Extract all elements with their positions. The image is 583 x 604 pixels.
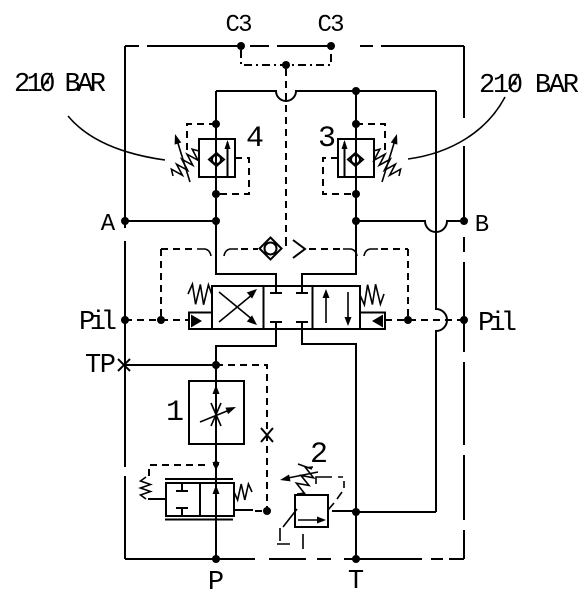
svg-text:2: 2	[310, 438, 328, 472]
node A boundary	[121, 217, 129, 225]
wire right inner vertical	[436, 91, 447, 512]
relief valve 4	[199, 91, 235, 221]
valve 2 adjust arrow	[280, 472, 318, 481]
pilot box right of directional valve	[360, 313, 385, 330]
compensator left pilot stub	[148, 498, 166, 500]
relief valve 3	[338, 91, 374, 221]
directional valve crossed arrows left cell	[219, 289, 257, 325]
wire center pilot dashed vertical	[285, 69, 287, 243]
label 210 BAR right	[479, 71, 579, 101]
outer boundary right edge	[463, 46, 465, 559]
svg-text:210 BAR: 210 BAR	[479, 71, 579, 101]
svg-text:C3: C3	[226, 12, 253, 39]
svg-text:A: A	[101, 211, 116, 238]
wire A to valve top	[216, 221, 276, 286]
svg-text:Pil: Pil	[478, 309, 517, 339]
pressure compensator body	[165, 479, 234, 520]
node TP junction	[212, 361, 220, 369]
wire B to valve top	[302, 221, 356, 286]
pilot dashed loop left vertical	[160, 249, 162, 320]
node Pil right boundary	[460, 316, 468, 324]
wire T junction to right vertical	[356, 511, 436, 513]
spring left of directional valve	[188, 284, 212, 305]
flow arrow into compensator	[213, 462, 220, 471]
Pil wire left	[125, 319, 189, 321]
svg-text:C3: C3	[318, 12, 345, 39]
plugged connection X	[261, 428, 273, 442]
outer boundary top edge	[125, 45, 464, 47]
directional valve parallel arrows right cell	[323, 289, 352, 326]
node C3 left	[237, 42, 245, 50]
node C3 center junction	[282, 61, 290, 69]
pilot box left of directional valve	[189, 313, 212, 330]
node valve2 inlet	[263, 507, 271, 515]
check valve in pilot line	[260, 238, 306, 260]
node A inner	[212, 217, 220, 225]
spring right of directional valve	[360, 284, 384, 305]
leader curve left	[68, 116, 165, 160]
node Pil left boundary	[121, 316, 129, 324]
compensator right spring	[234, 484, 252, 500]
valve 2 remote pilot dashes	[316, 477, 344, 510]
pilot dashes of relief valve 4	[187, 124, 249, 194]
node T port	[352, 555, 360, 563]
spring of relief valve 4	[171, 149, 199, 176]
wire valve bottom-left to P column	[216, 329, 276, 381]
svg-text:Pil: Pil	[79, 308, 117, 338]
throttle valve 1 box	[189, 381, 244, 444]
adjust arrow of relief valve 3	[382, 134, 397, 182]
svg-text:T: T	[348, 567, 364, 597]
spring of relief valve 3	[373, 149, 401, 176]
wire valve bottom-right to T column	[302, 329, 356, 559]
node header valve3 junction	[352, 87, 360, 95]
port A wire	[125, 220, 216, 222]
node T upper junction	[352, 508, 360, 516]
directional valve center cell blocked ports	[270, 286, 308, 329]
wire C3 dash-dot link	[241, 50, 331, 65]
throttle adjustable symbol	[200, 403, 236, 426]
pilot dashes of relief valve 3	[323, 124, 385, 194]
wire throttle to compensator	[215, 444, 217, 559]
label 210 BAR left	[14, 70, 106, 100]
node B inner	[352, 217, 360, 225]
pressure valve 2 body	[283, 495, 328, 527]
leader curve right	[408, 97, 505, 159]
svg-text:4: 4	[246, 122, 264, 156]
svg-text:TP: TP	[85, 351, 116, 381]
TP wire	[125, 364, 216, 366]
wire relief header	[216, 91, 436, 101]
Pil wire right	[385, 319, 464, 321]
node Pil right junction	[404, 316, 412, 324]
compensator pilot dashed	[149, 465, 210, 476]
adjust arrow of relief valve 4	[175, 134, 190, 182]
valve 2 drain dashes	[277, 528, 303, 549]
svg-text:3: 3	[318, 122, 336, 156]
node C3 right	[327, 42, 335, 50]
node Pil left junction	[157, 316, 165, 324]
directional control valve body	[212, 286, 360, 329]
pilot dashed from node to valve 2	[216, 365, 267, 511]
port B wire with hop	[356, 221, 464, 232]
pilot dashed loop top run	[161, 249, 408, 256]
svg-text:1: 1	[166, 396, 184, 430]
node compensator pilot junction	[213, 461, 219, 467]
svg-text:P: P	[208, 568, 224, 598]
node B boundary	[460, 217, 468, 225]
compensator right pilot stub	[234, 510, 267, 511]
valve 2 spring	[296, 464, 313, 494]
pilot dashed loop right vertical	[407, 249, 409, 320]
TP test point star	[118, 359, 130, 371]
node P port	[212, 555, 220, 563]
outer boundary bottom edge	[125, 558, 464, 560]
svg-text:210 BAR: 210 BAR	[14, 70, 106, 100]
outer boundary left edge	[124, 46, 126, 559]
compensator left spring	[141, 477, 151, 499]
svg-text:B: B	[475, 212, 489, 239]
valve 2 outlet wire	[332, 510, 356, 512]
